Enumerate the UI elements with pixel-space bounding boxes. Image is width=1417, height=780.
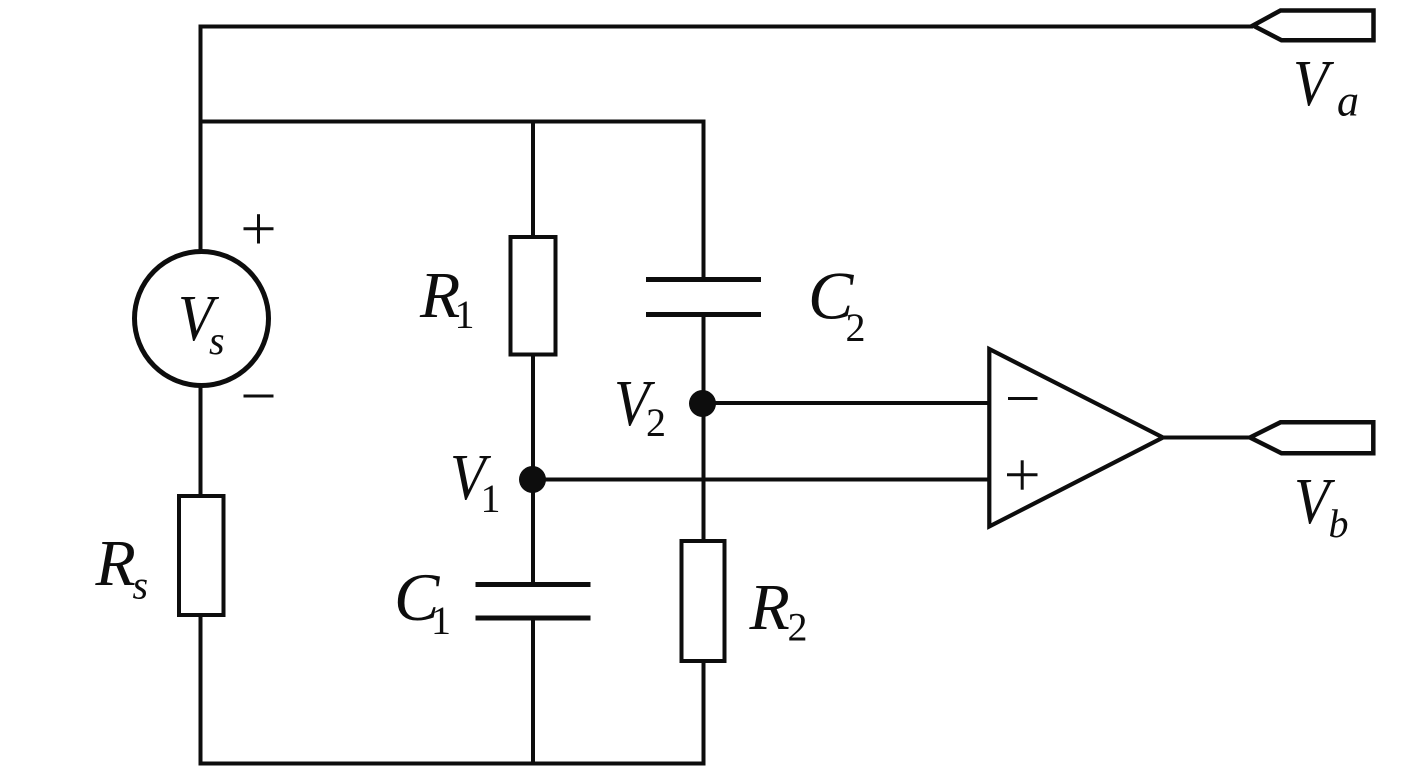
voltage source Vs — [135, 252, 269, 386]
svg-text:s: s — [209, 318, 225, 363]
svg-text:2: 2 — [788, 605, 808, 650]
label Va — [1293, 47, 1359, 126]
wire R2 bottom to bottom rail — [702, 663, 706, 766]
svg-text:1: 1 — [455, 292, 475, 337]
resistor R2 — [682, 541, 725, 661]
capacitor C1 — [476, 585, 591, 619]
label Vb — [1294, 465, 1349, 546]
wire Vs bottom to Rs — [199, 386, 203, 495]
plus sign of Vs — [244, 214, 274, 243]
svg-text:1: 1 — [431, 598, 451, 643]
terminal Va flag — [1253, 11, 1374, 41]
wire C2 branch top — [702, 122, 706, 280]
wire left rail upper segment — [199, 25, 203, 252]
resistor Rs — [179, 496, 224, 615]
wire op-amp output to Vb terminal — [1164, 436, 1251, 440]
wire C1 bottom to bottom rail — [531, 618, 535, 766]
label C1 — [394, 559, 451, 643]
minus sign of Vs — [244, 395, 274, 398]
svg-text:s: s — [133, 563, 149, 608]
label V1 — [450, 441, 501, 521]
op-amp minus input label — [1008, 397, 1038, 400]
wire bottom rail — [199, 762, 706, 766]
wire node V2 to op-amp inverting input — [704, 401, 990, 405]
wire Rs to bottom rail — [199, 617, 203, 766]
svg-text:R: R — [749, 571, 790, 644]
wire R1 branch top — [531, 122, 535, 237]
svg-text:2: 2 — [646, 400, 666, 445]
label R2 — [749, 571, 808, 650]
svg-text:2: 2 — [846, 305, 866, 350]
svg-text:a: a — [1337, 77, 1359, 126]
svg-text:R: R — [95, 527, 136, 600]
svg-text:b: b — [1329, 501, 1349, 546]
node V1 junction dot — [519, 466, 546, 493]
op-amp plus input label — [1007, 460, 1038, 489]
wire node V1 to op-amp noninverting input — [533, 478, 989, 482]
node V2 junction dot — [689, 390, 716, 417]
terminal Vb flag — [1250, 422, 1373, 453]
label V2 — [614, 367, 666, 445]
wire top rail from left rail to Va terminal — [199, 25, 1254, 29]
wire C2 bottom through node V2 to R2 — [702, 315, 706, 541]
label Vs — [178, 282, 225, 363]
label Rs — [95, 527, 149, 608]
capacitor C2 — [646, 280, 761, 315]
svg-text:V: V — [1293, 47, 1334, 120]
label R1 — [419, 259, 475, 337]
svg-text:1: 1 — [481, 476, 501, 521]
wire second horizontal rail — [199, 120, 706, 124]
wire R1 bottom through node V1 to C1 — [531, 356, 535, 585]
label C2 — [808, 258, 866, 351]
op-amp U1 triangle — [989, 349, 1163, 527]
resistor R1 — [511, 237, 556, 355]
